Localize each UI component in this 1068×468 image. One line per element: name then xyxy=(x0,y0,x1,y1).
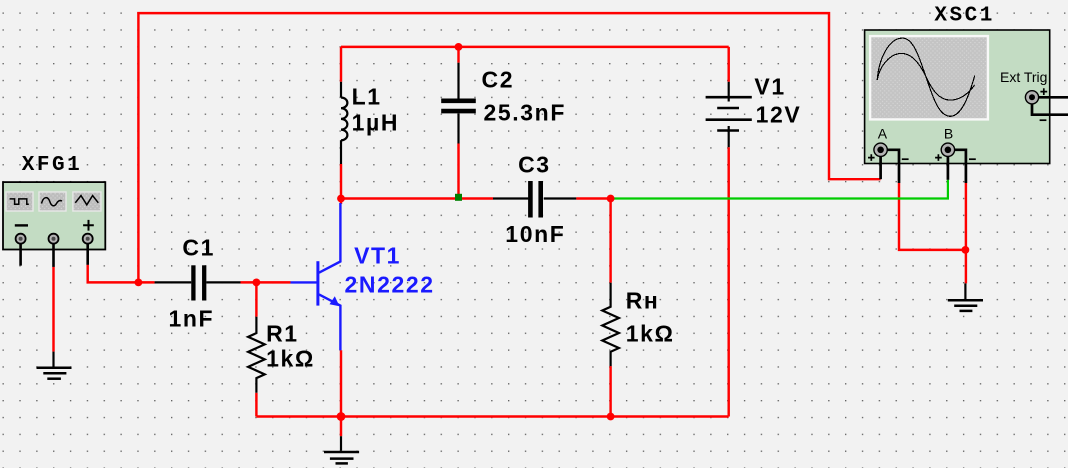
svg-text:XSC1: XSC1 xyxy=(934,4,994,27)
svg-text:Ext Trig: Ext Trig xyxy=(1000,69,1047,85)
svg-text:B: B xyxy=(944,126,953,142)
svg-text:R1: R1 xyxy=(266,321,299,347)
svg-text:C2: C2 xyxy=(482,67,515,93)
svg-text:A: A xyxy=(878,126,888,142)
svg-text:VT1: VT1 xyxy=(354,243,401,269)
svg-text:2N2222: 2N2222 xyxy=(345,271,435,297)
svg-text:C1: C1 xyxy=(182,235,215,261)
svg-text:1µH: 1µH xyxy=(352,110,399,136)
svg-text:XFG1: XFG1 xyxy=(22,154,82,177)
svg-text:V1: V1 xyxy=(754,74,785,100)
svg-text:Rн: Rн xyxy=(626,287,660,313)
svg-text:C3: C3 xyxy=(518,151,551,177)
svg-text:1kΩ: 1kΩ xyxy=(626,321,675,347)
svg-text:1nF: 1nF xyxy=(169,306,215,332)
svg-text:25.3nF: 25.3nF xyxy=(484,99,566,125)
svg-text:10nF: 10nF xyxy=(505,221,565,247)
svg-text:L1: L1 xyxy=(352,83,382,109)
svg-text:1kΩ: 1kΩ xyxy=(266,346,315,372)
svg-text:12V: 12V xyxy=(756,102,802,128)
